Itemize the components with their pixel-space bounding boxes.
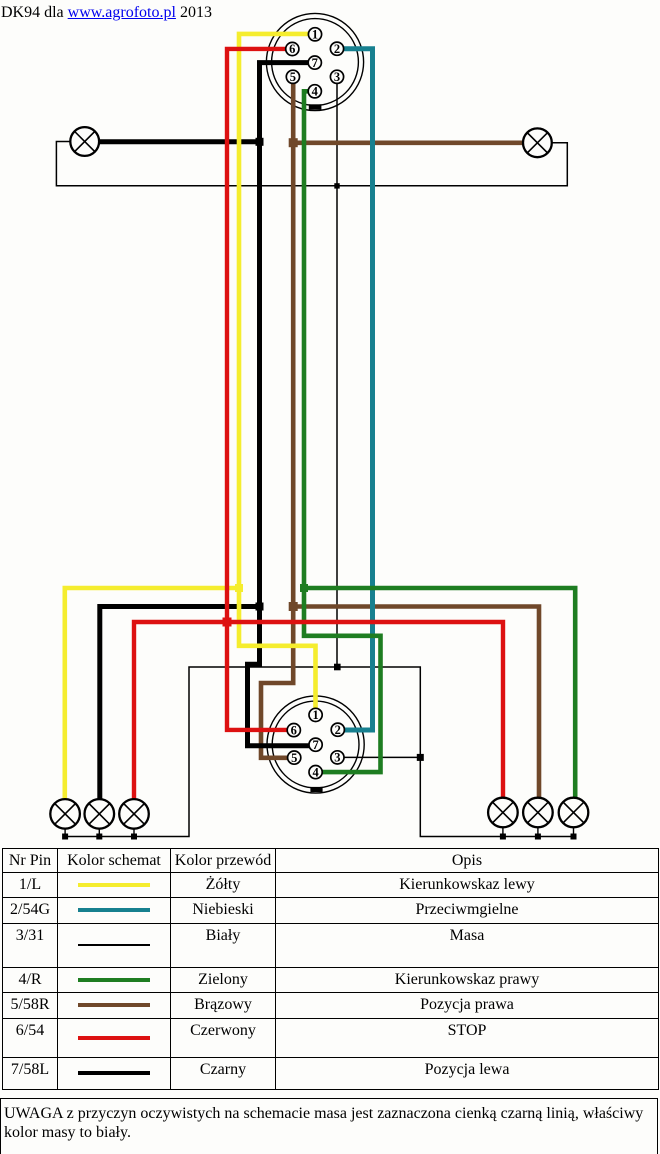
lamp bottom L2 (pozycja lewa) [85, 799, 115, 834]
junction yellow [235, 584, 243, 592]
svg-text:6: 6 [289, 42, 295, 56]
lamp bottom R3 (kierunkowskaz prawy) [559, 798, 589, 834]
wire brown: to top right lamp [293, 141, 523, 146]
J1 pin 3 [330, 70, 343, 84]
J1 pin 5 [286, 70, 299, 84]
svg-text:2: 2 [335, 723, 341, 737]
J1 pin 2 [330, 42, 343, 56]
lamp bottom R1 (STOP prawy) [488, 798, 518, 834]
wire brown 58R: J1 pin5 down [291, 83, 296, 606]
wire masa thin: bottom ground rail around J2 [65, 667, 573, 837]
wire black: to bottom left lamp L2 [100, 607, 260, 800]
junction brown lower [289, 602, 298, 611]
title [1, 3, 212, 22]
wire brown: to J2 pin5 [261, 607, 293, 758]
lamp bottom L1 (kierunkowskaz lewy) [50, 799, 80, 834]
wire red 54: J1 pin6 left and down [227, 49, 286, 622]
wire yellow L: J1 pin1 left and down [239, 34, 309, 588]
lamp top-left (pozycja lewa) [70, 127, 99, 156]
wire black: top left lamp feed [99, 139, 259, 144]
J2 pin 4 [309, 765, 322, 779]
connector J2 (bottom socket) body [267, 696, 364, 793]
wire brown: to bottom right lamp R2 [293, 607, 539, 798]
junction brown at top lamp feed [289, 138, 298, 147]
junction red [223, 618, 232, 627]
terminal square lamp L2 [96, 834, 102, 840]
svg-text:7: 7 [312, 56, 318, 70]
J1 pin 4 [308, 85, 321, 99]
terminal square lamp R3 [571, 834, 577, 840]
junction masa on bottom rail top edge [334, 664, 341, 671]
wire masa thin: top lamps ground loop [56, 142, 567, 186]
svg-text:3: 3 [334, 751, 340, 765]
lamp top-right (pozycja prawa) [523, 128, 552, 157]
wire yellow: to J2 pin1 [239, 588, 316, 709]
junction masa at top lamps loop [334, 183, 339, 188]
wire black: to J2 pin7 [248, 607, 310, 746]
terminal square lamp L1 [62, 834, 68, 840]
J1 pin 7 [308, 56, 321, 70]
svg-text:7: 7 [312, 738, 318, 752]
wire green: to bottom right lamp R3 [304, 588, 575, 798]
svg-text:1: 1 [312, 708, 318, 722]
wire masa thin: J2 pin3 to ground rail [344, 756, 421, 758]
junction green [300, 584, 308, 592]
J2 pin 2 [331, 723, 344, 737]
J2 pin 5 [288, 751, 301, 765]
lamp bottom L3 (STOP lewy) [119, 799, 149, 834]
svg-text:5: 5 [291, 751, 297, 765]
wire green R: J1 pin4 left and down [304, 91, 308, 588]
terminal square lamp R2 [535, 834, 541, 840]
lamp bottom R2 (pozycja prawa) [523, 798, 553, 834]
J1 pin 1 [308, 28, 321, 42]
J2 pin 3 [331, 751, 344, 765]
svg-text:1: 1 [312, 28, 318, 42]
connector J1 keyway [309, 104, 322, 109]
wire black 58L: J1 pin7 left and down [260, 63, 309, 142]
wire red: to bottom right lamp R1 [227, 622, 503, 798]
wire teal 54G: J1 pin2 to J2 pin2 [343, 49, 372, 730]
svg-text:4: 4 [312, 765, 319, 779]
J2 pin 1 [309, 708, 322, 722]
wire black: down to lower junction [257, 142, 262, 607]
connector J1 (top socket) body [266, 13, 363, 110]
wire red: to J2 pin6 [227, 622, 288, 730]
connector J2 keyway [310, 787, 322, 792]
junction masa on bottom rail right edge [417, 754, 424, 761]
note box [0, 1098, 658, 1154]
svg-text:3: 3 [334, 70, 340, 84]
svg-text:4: 4 [312, 85, 319, 99]
svg-text:6: 6 [291, 723, 297, 737]
wire green: to J2 pin4 [304, 588, 381, 772]
J2 pin 6 [287, 723, 300, 737]
junction black at top lamp feed [256, 138, 264, 146]
svg-text:2: 2 [334, 42, 340, 56]
wire red: to bottom left lamp L3 [134, 622, 227, 799]
wire yellow: to bottom left lamp L1 [65, 588, 239, 799]
terminal square lamp R1 [500, 834, 506, 840]
J2 pin 7 [309, 738, 322, 752]
junction black lower [256, 603, 264, 611]
wire masa thin: J1 pin3 down to bottom ground rail [336, 84, 338, 668]
terminal square lamp L3 [131, 834, 137, 840]
J1 pin 6 [286, 42, 299, 56]
svg-text:5: 5 [290, 70, 296, 84]
